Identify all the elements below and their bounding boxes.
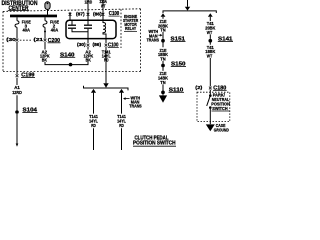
svg-text:(86): (86): [93, 42, 102, 47]
svg-text:40A: 40A: [51, 27, 59, 32]
svg-text:(30: (30: [6, 37, 16, 42]
svg-text:TRANS: TRANS: [147, 37, 160, 42]
svg-text:12RD: 12RD: [12, 90, 22, 96]
svg-text:POSITION SWITCH: POSITION SWITCH: [133, 141, 176, 147]
svg-text:(21: (21: [34, 37, 44, 42]
svg-text:RD: RD: [91, 123, 96, 129]
svg-text:12RD: 12RD: [85, 0, 93, 4]
svg-text:40A: 40A: [23, 27, 31, 32]
svg-text:GROUND: GROUND: [214, 127, 229, 132]
svg-text:RELAY: RELAY: [125, 26, 136, 31]
svg-text:TRANS: TRANS: [129, 104, 142, 109]
svg-text:BK: BK: [86, 57, 92, 63]
svg-text:WT: WT: [207, 30, 212, 36]
svg-text:SWITCH: SWITCH: [212, 106, 228, 111]
svg-text:WT: WT: [101, 3, 106, 8]
svg-text:(30): (30): [77, 42, 86, 47]
svg-text:RD: RD: [119, 123, 124, 129]
svg-text:WT: WT: [207, 54, 212, 60]
svg-text:(86): (86): [93, 11, 102, 16]
svg-text:RD: RD: [104, 57, 109, 63]
svg-text:(2): (2): [195, 85, 203, 90]
svg-text:(87): (87): [76, 11, 85, 16]
